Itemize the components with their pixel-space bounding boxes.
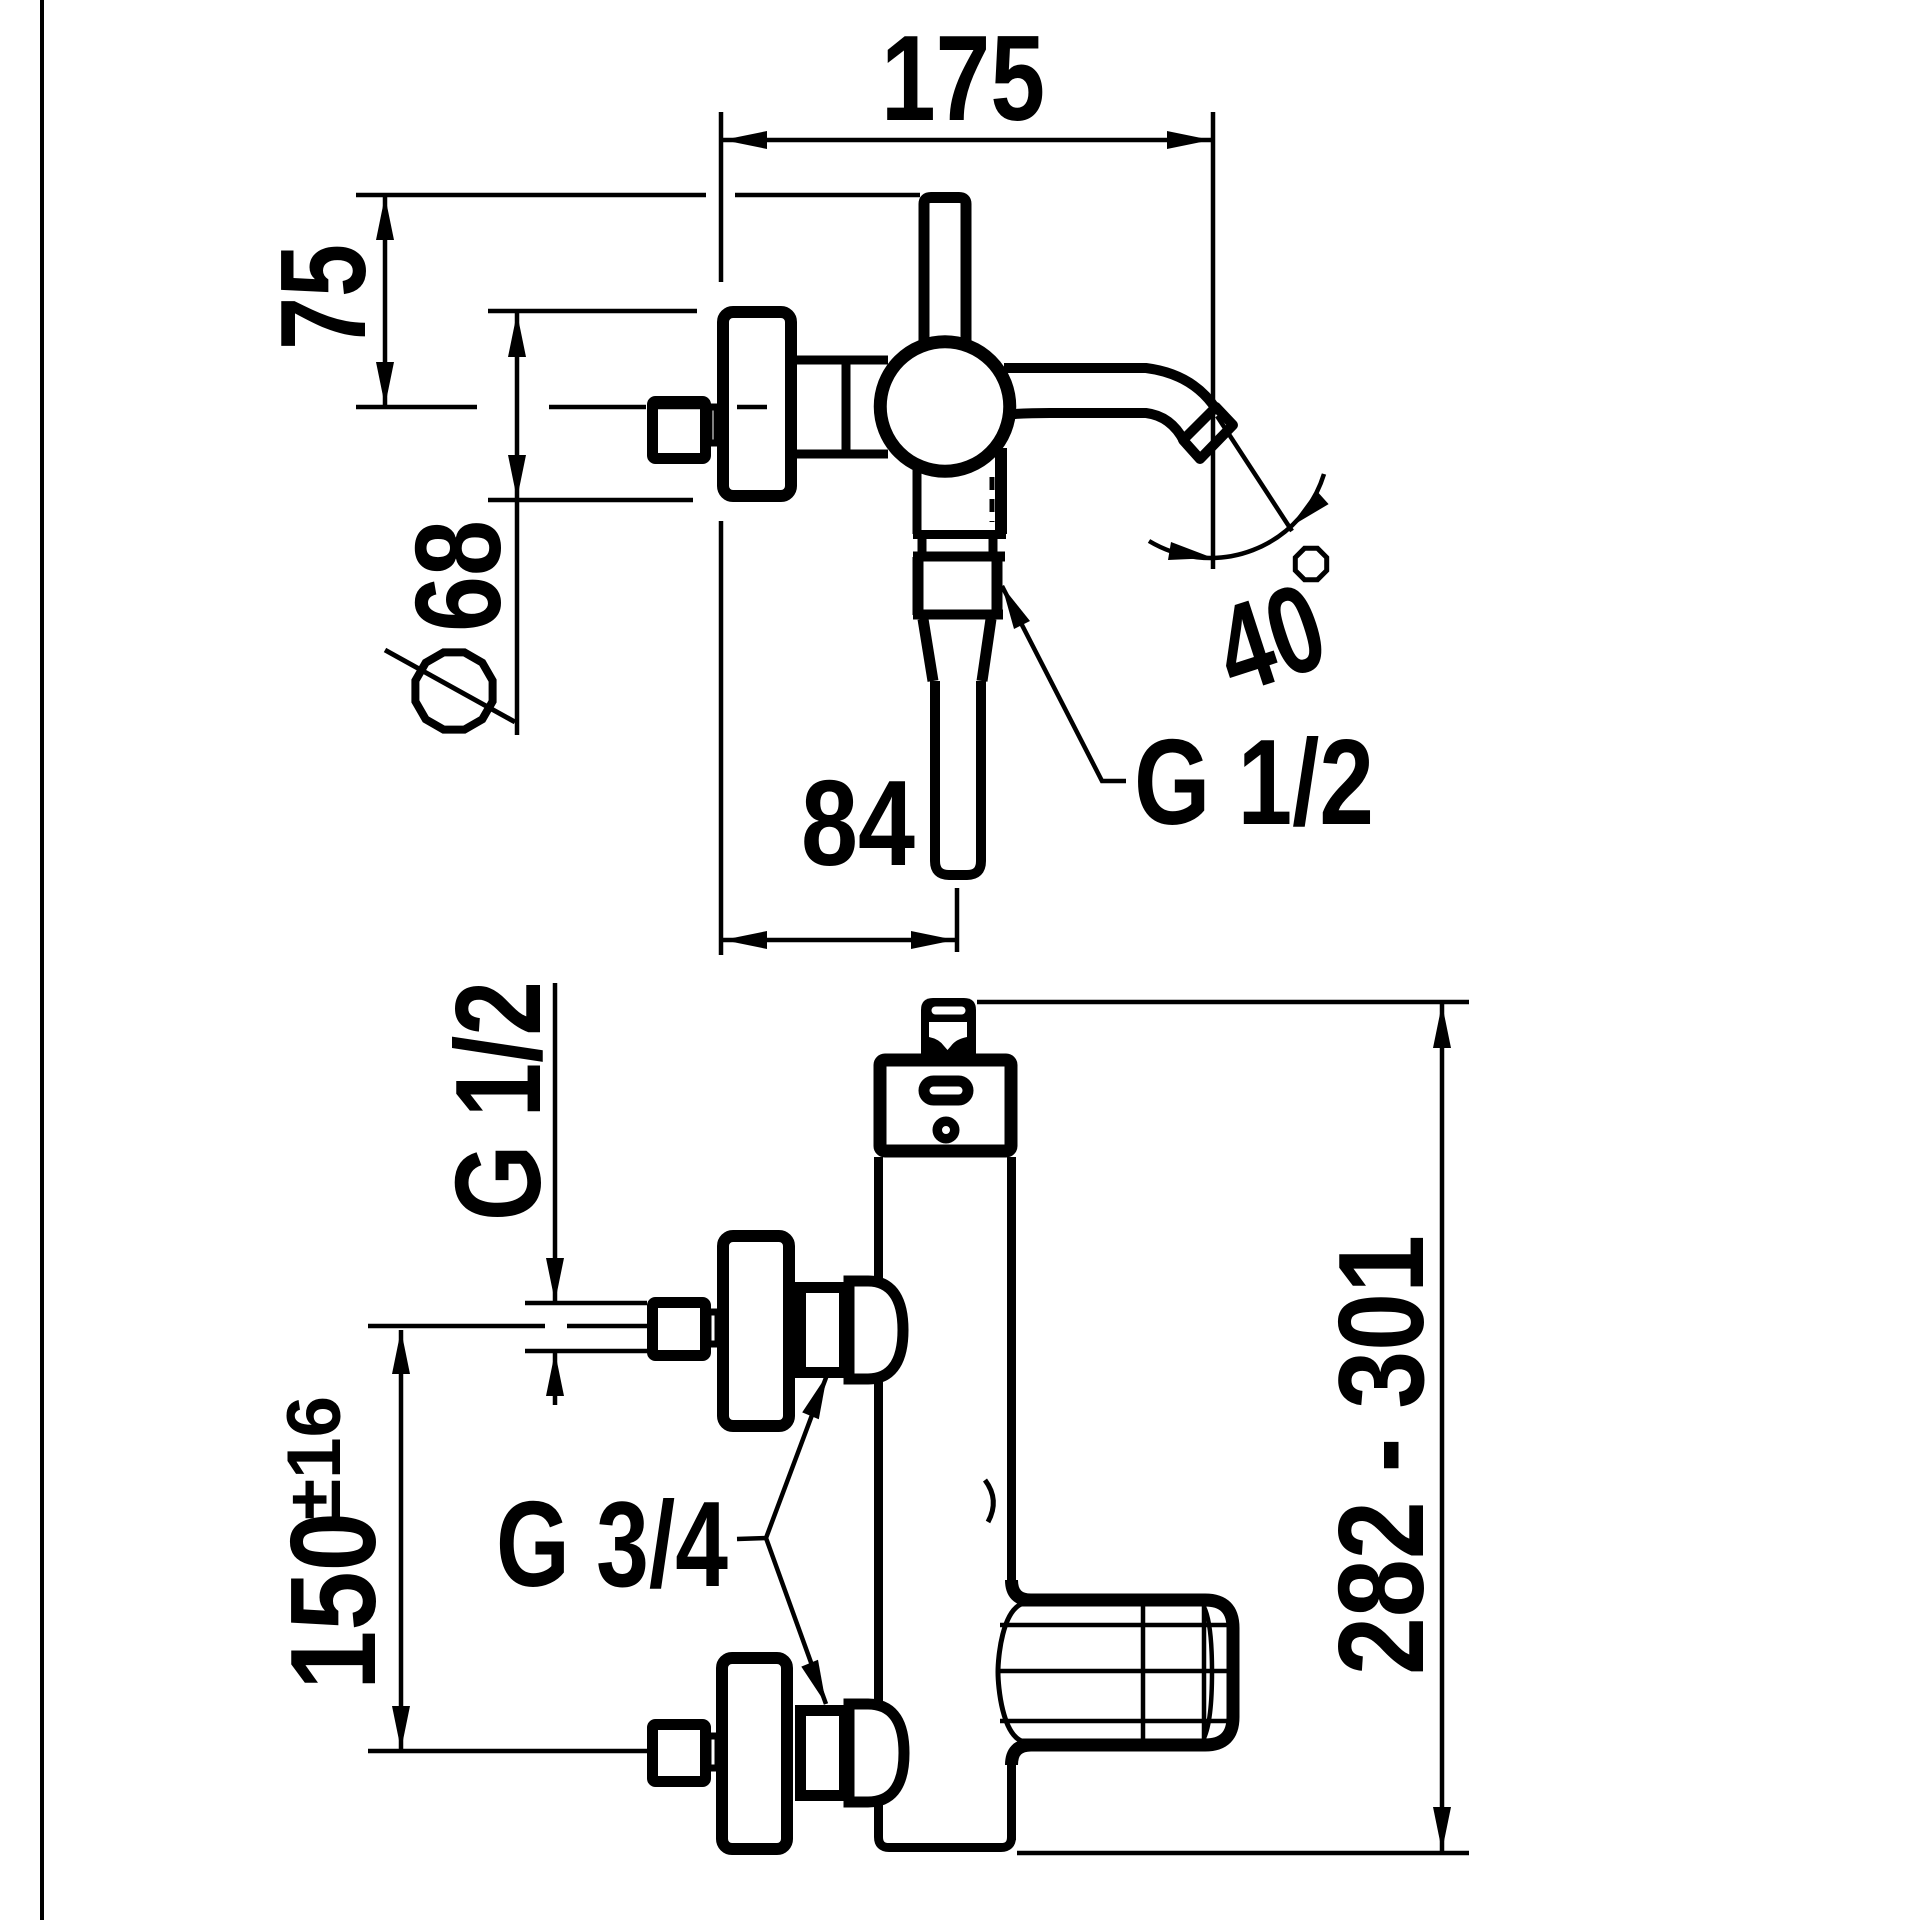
degree symbol octagon xyxy=(1295,548,1326,579)
dimension 150 +-16 xyxy=(265,1330,410,1750)
dimension 84 xyxy=(723,755,957,952)
fillets to shower holder xyxy=(1012,1580,1032,1600)
extension line 75 top y=195 xyxy=(356,193,706,198)
extension line body bottom xyxy=(1017,1851,1469,1856)
68 extension lines xyxy=(488,309,697,314)
main body tube fill xyxy=(874,1156,1016,1852)
leader arrowhead G 1/2 xyxy=(1002,586,1030,629)
lower inlet axis line xyxy=(368,1749,647,1754)
knob grip pocket xyxy=(929,1022,967,1050)
arrowhead down 282 - 301 xyxy=(1433,1807,1451,1851)
shower outlet pipe xyxy=(935,681,981,875)
temperature knob on top xyxy=(921,998,976,1056)
wall rosette (top view) xyxy=(723,312,791,496)
dimension G 1/2 (bottom view) xyxy=(430,981,647,1405)
extension line body top xyxy=(977,1000,1469,1005)
extension line upper left x=721 xyxy=(719,112,724,282)
taper edges xyxy=(923,619,933,681)
dimension line 68 xyxy=(515,312,520,735)
upper inlet: G3/4 union nut xyxy=(801,1288,845,1373)
cap screw hole xyxy=(937,1121,955,1139)
arrowhead up 75 xyxy=(376,196,394,240)
dimension line G 1/2 lower xyxy=(553,1352,558,1405)
hidden line dashes xyxy=(990,477,995,522)
arrowhead up 68 xyxy=(508,313,526,357)
svg-text:84: 84 xyxy=(801,755,915,891)
arrowhead down 68 xyxy=(508,455,526,499)
upper inlet axis line right part xyxy=(567,1324,647,1329)
leader arrowhead upper G 3/4 xyxy=(802,1375,827,1419)
cap slot xyxy=(924,1081,968,1100)
joint line 1 xyxy=(913,530,1006,539)
arrowhead up 150 xyxy=(392,1330,410,1374)
joint line 2 xyxy=(913,552,1005,562)
svg-text:175: 175 xyxy=(881,10,1045,146)
diameter symbol slash xyxy=(385,650,515,722)
leader fork lower branch xyxy=(766,1538,826,1704)
dimension line 282 - 301 xyxy=(1440,1004,1445,1851)
extension line pipe centre x=957 xyxy=(955,888,960,952)
upper inlet: boss on body xyxy=(849,1281,903,1379)
lower inlet: square nut xyxy=(653,1725,706,1782)
svg-text:G 3/4: G 3/4 xyxy=(496,1476,728,1612)
lower inlet: boss on body xyxy=(849,1704,904,1802)
body neck below ball xyxy=(913,448,1006,880)
arrowhead down G 1/2 xyxy=(546,1258,564,1302)
holder inner lines xyxy=(1000,1623,1227,1628)
arrowhead right 175 xyxy=(1167,131,1211,149)
svg-text:68: 68 xyxy=(390,520,526,632)
arrowhead right 84 xyxy=(911,931,955,949)
dimension 68 xyxy=(390,312,526,735)
square nut (top view inlet) xyxy=(653,402,718,459)
band B edges xyxy=(918,534,927,557)
dimension line G 1/2 upper xyxy=(553,983,558,1302)
svg-text:G 1/2: G 1/2 xyxy=(1134,714,1374,850)
dimension line 150 xyxy=(399,1330,404,1750)
arc arrowhead left xyxy=(1168,542,1213,560)
svg-text:±16: ±16 xyxy=(272,1396,357,1520)
handle rod xyxy=(924,198,966,353)
spout tube xyxy=(1004,366,1233,459)
connector arm between rosette and ball xyxy=(794,360,888,454)
svg-text:G 1/2: G 1/2 xyxy=(430,981,566,1221)
tube edges xyxy=(879,1157,1012,1848)
swing arc xyxy=(1149,474,1324,558)
inclined angle line xyxy=(1217,416,1292,531)
diameter symbol circle xyxy=(385,650,515,730)
leader fork upper branch xyxy=(737,1375,827,1539)
dimension line 84 xyxy=(723,938,955,943)
dimension line 175 xyxy=(723,138,1211,143)
upper inlet: square nut xyxy=(653,1303,706,1356)
extension line right of 175 (over spout) xyxy=(1211,112,1216,569)
dimension line 75 xyxy=(383,196,388,406)
arrowhead down 150 xyxy=(392,1706,410,1750)
neck section A edges xyxy=(913,462,922,534)
ball joint body xyxy=(880,342,1010,472)
nut neck (top view) xyxy=(709,407,717,443)
G 3/4 label with fork leader xyxy=(496,1375,827,1704)
75 bottom extension line segments (y=407) xyxy=(356,405,477,410)
spout tip band xyxy=(1183,407,1233,459)
shower holder block xyxy=(998,1600,1233,1745)
arrowhead left 84 xyxy=(723,931,767,949)
extension line pipe top xyxy=(525,1301,647,1306)
joint line 3 xyxy=(913,610,1003,620)
lower inlet: nut neck xyxy=(708,1736,718,1768)
knob slot xyxy=(932,1007,966,1015)
extension line pipe bottom xyxy=(525,1349,647,1354)
extension line lower left x=721 xyxy=(719,521,724,955)
dimension 75 xyxy=(255,196,394,406)
lower inlet: G3/4 union nut xyxy=(801,1711,845,1796)
leader line G 1/2 xyxy=(1002,586,1126,781)
svg-text:282 - 301: 282 - 301 xyxy=(1313,1235,1449,1675)
page border line xyxy=(40,0,44,1920)
holder left thin cap xyxy=(998,1603,1024,1742)
decorative arc on tube xyxy=(985,1480,993,1522)
dimension 282 - 301 xyxy=(977,1002,1469,1853)
arrowhead up G 1/2 xyxy=(546,1352,564,1396)
collar C edges xyxy=(913,557,924,615)
leader arrowhead lower G 3/4 xyxy=(801,1660,826,1704)
svg-text:75: 75 xyxy=(255,244,391,350)
arrowhead down 75 xyxy=(376,362,394,406)
upper inlet axis line left part xyxy=(368,1324,545,1329)
arc arrowhead right xyxy=(1290,491,1329,527)
arrowhead left 175 xyxy=(723,131,767,149)
upper wall rosette xyxy=(723,1236,789,1426)
40 degree swing indication xyxy=(1149,416,1341,721)
upper inlet: nut neck xyxy=(708,1312,718,1344)
lower wall rosette xyxy=(722,1658,787,1849)
G 1/2 leader (top view) xyxy=(1002,586,1374,850)
arrowhead up 282 - 301 xyxy=(1433,1004,1451,1048)
dimension 175 xyxy=(723,10,1211,149)
top cap block xyxy=(880,1060,1011,1151)
svg-text:150: 150 xyxy=(265,1512,401,1690)
